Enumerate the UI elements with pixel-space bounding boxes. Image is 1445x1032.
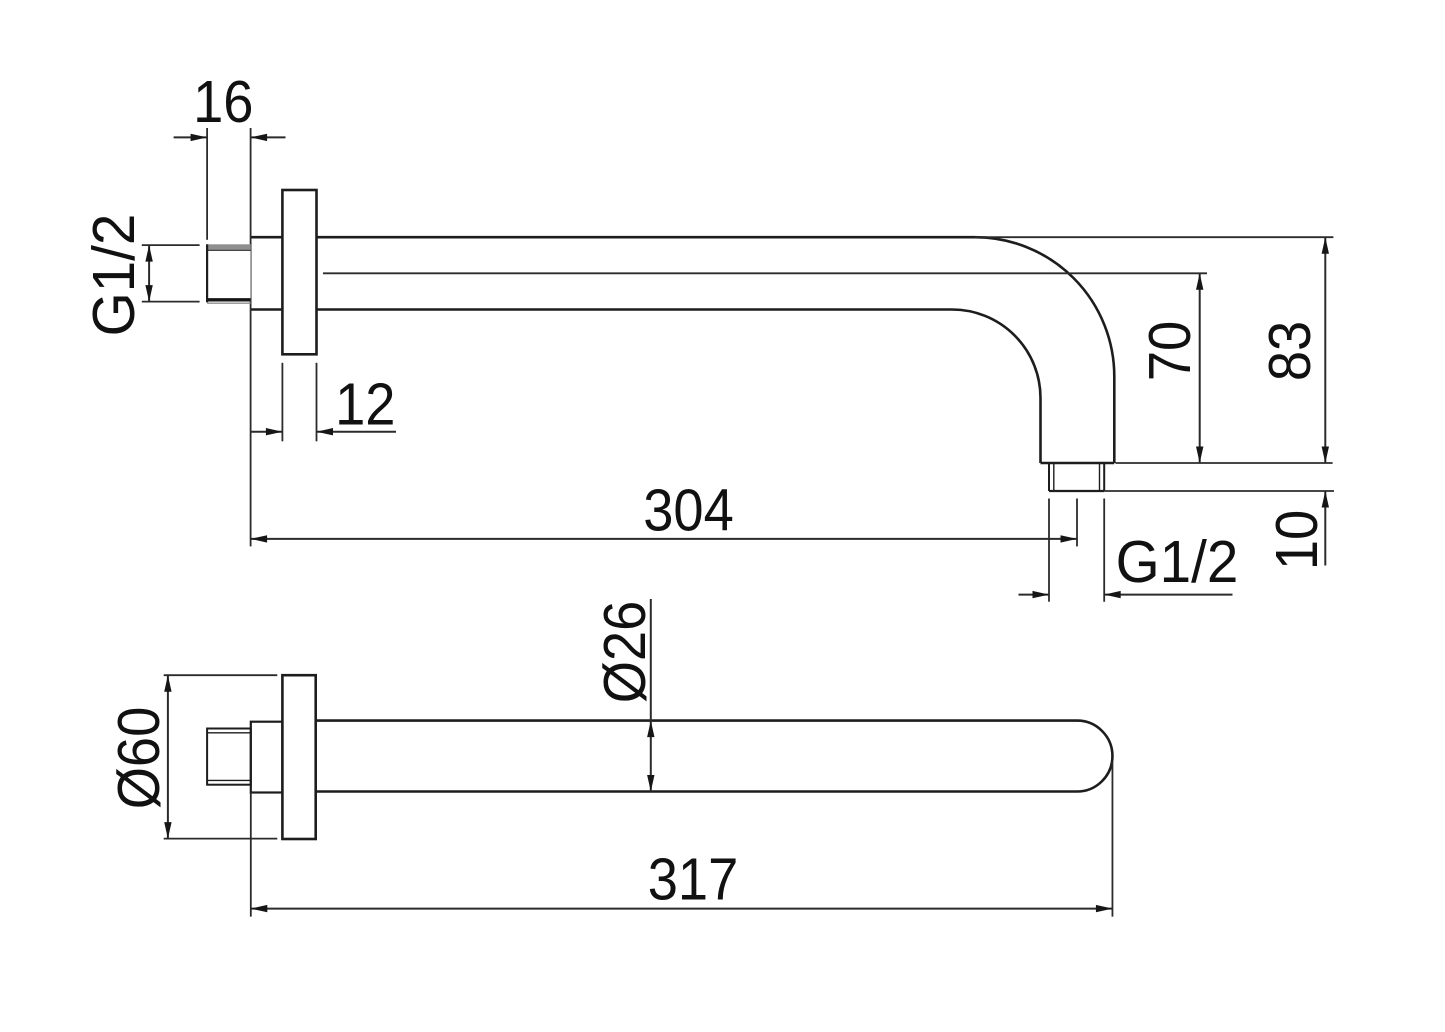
svg-text:304: 304 [643, 478, 734, 544]
svg-text:Ø26: Ø26 [593, 601, 659, 704]
arm tube (top view) with rounded end [316, 721, 1113, 792]
svg-text:G1/2: G1/2 [1116, 530, 1239, 595]
wall flange / escutcheon (top view) [282, 675, 315, 839]
dimension D60 (flange diameter) [107, 675, 277, 838]
svg-text:G1/2: G1/2 [82, 214, 147, 337]
tube interior edge line (side view) [323, 272, 1207, 274]
dimension 304 [251, 478, 1077, 546]
threaded wall nipple (side view) [207, 244, 251, 303]
extension line outlet bottom (for 70/83) [1116, 462, 1333, 464]
dimension G1/2 (wall thread, side view) [82, 214, 200, 337]
wall-plane / extension line (16,304) [250, 128, 252, 546]
svg-text:Ø60: Ø60 [107, 707, 173, 810]
wall-plane extension line (317 left) [250, 793, 252, 917]
svg-text:317: 317 [648, 848, 739, 914]
dimension 10 [1265, 491, 1331, 570]
threaded wall nipple (top view) [207, 729, 251, 785]
dimension G1/2 (outlet thread) [1019, 499, 1239, 602]
svg-text:16: 16 [193, 70, 253, 136]
shower arm tube outline (side view) [251, 237, 1115, 463]
dimension 70 [1138, 273, 1204, 463]
svg-text:83: 83 [1258, 321, 1324, 381]
dimension 83 [1258, 237, 1329, 463]
dimension 317 [251, 762, 1113, 917]
tube top extension line to 83 dim [975, 236, 1333, 238]
wall flange / escutcheon (side view) [282, 190, 316, 354]
svg-text:12: 12 [335, 373, 395, 439]
svg-text:70: 70 [1138, 321, 1204, 381]
dimension 12 (flange thickness) [251, 363, 396, 442]
svg-text:10: 10 [1265, 510, 1331, 570]
tube socket behind flange (top view) [251, 722, 283, 793]
extension line nipple end (for 10) [1104, 490, 1334, 492]
dimension 16 [174, 70, 286, 240]
outlet nipple G1/2 (side view) [1049, 463, 1104, 491]
dimension D26 (tube diameter) [593, 599, 659, 792]
